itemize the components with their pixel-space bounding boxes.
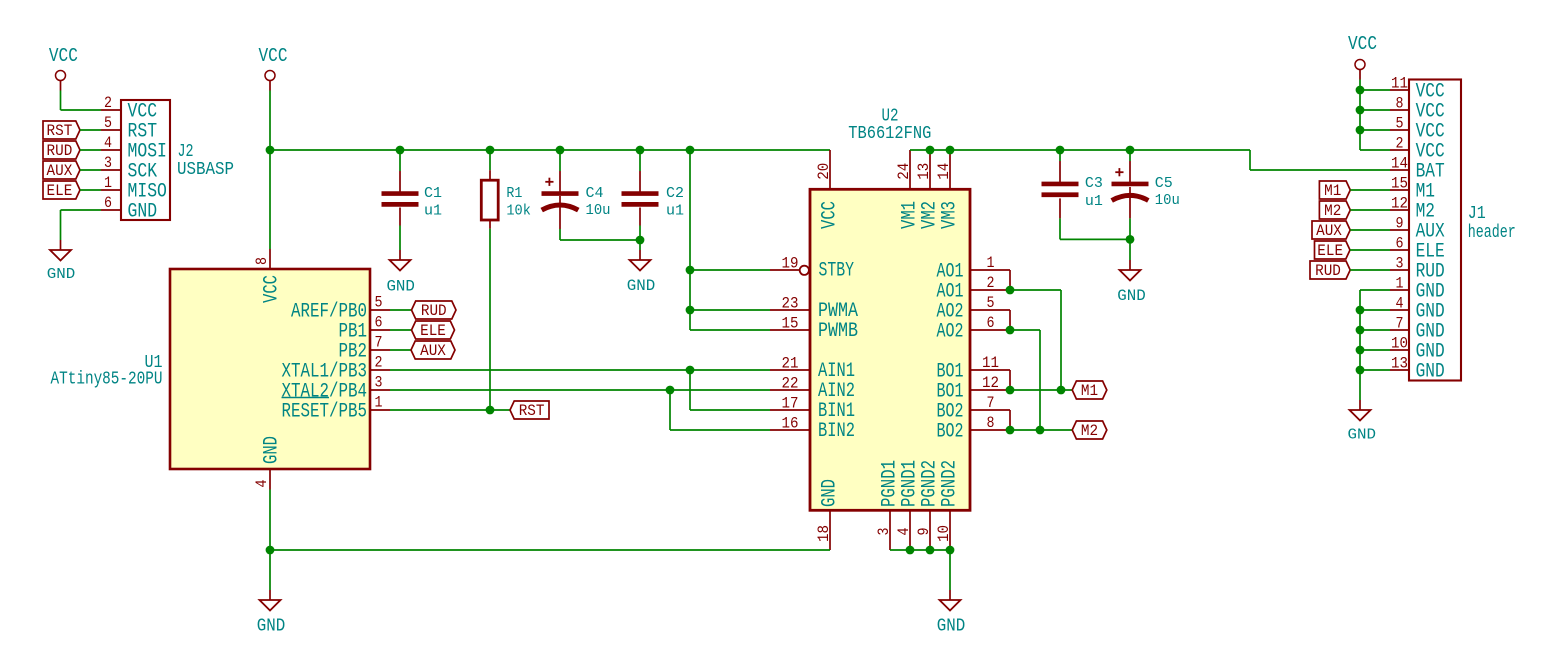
wire VCC1 down (60, 91, 62, 111)
svg-text:ATtiny85-20PU: ATtiny85-20PU (51, 370, 163, 390)
svg-text:ELE: ELE (47, 182, 73, 200)
wire AO1 node down (1060, 290, 1062, 390)
U1 pin 2 XTAL1/PB3 (370, 369, 390, 371)
U1 pin 7 PB2 (370, 349, 390, 351)
svg-text:10: 10 (1391, 335, 1408, 353)
svg-text:5: 5 (987, 294, 995, 312)
svg-text:6: 6 (1396, 235, 1404, 253)
svg-text:VCC: VCC (49, 45, 78, 67)
wire XTAL1 net (390, 369, 770, 371)
svg-text:8: 8 (987, 414, 995, 432)
hierarchical label AUX (43, 161, 80, 179)
svg-text:u1: u1 (666, 203, 684, 220)
capacitor C3 (1042, 182, 1079, 187)
ground symbol (C1) (399, 250, 401, 260)
svg-text:7: 7 (987, 394, 995, 412)
junction rail C2 (636, 146, 645, 155)
wire ELE to J2 pin 1 (80, 189, 101, 191)
svg-text:5: 5 (1396, 115, 1404, 133)
svg-text:7: 7 (1396, 315, 1404, 333)
svg-text:5: 5 (104, 114, 112, 132)
junction VM3 (946, 146, 955, 155)
junction rail C1 (396, 146, 405, 155)
junction J1 VCC 8 (1356, 106, 1365, 115)
svg-text:11: 11 (982, 354, 999, 372)
IC U2 body (810, 189, 970, 510)
junction J1 GND 4 (1356, 306, 1365, 315)
svg-text:VCC: VCC (261, 275, 284, 303)
U1 pin 1 RESET/PB5 (370, 409, 390, 411)
wire J1 VCC to pin2 (1360, 149, 1390, 151)
wire C2 top lead (639, 171, 641, 192)
svg-text:GND: GND (261, 436, 284, 464)
J1 pin 14 BAT (1390, 169, 1409, 171)
hierarchical label M2 (U2) (1072, 421, 1107, 439)
junction AO2/M2 tie (1036, 426, 1045, 435)
wire C2 bottom lead (639, 208, 641, 226)
ground symbol (C5) (1129, 260, 1131, 270)
U1 pin 8 VCC (269, 249, 271, 269)
wire C5 top lead (1129, 161, 1131, 182)
svg-text:13: 13 (1391, 355, 1408, 373)
wire J1 GND pin1 (1360, 289, 1390, 291)
J1 pin 12 M2 (1390, 209, 1409, 211)
wire PGND bus (890, 549, 950, 551)
svg-text:15: 15 (782, 315, 799, 333)
junction AO1 (1006, 286, 1015, 295)
svg-text:ELE: ELE (1317, 242, 1343, 260)
svg-text:RST: RST (47, 122, 73, 140)
wire main VCC rail (270, 149, 830, 151)
wire RST to J2 pin 5 (80, 129, 101, 131)
J1 pin 2 VCC (1390, 149, 1409, 151)
junction PGND 9 (926, 546, 935, 555)
IC U1 body (170, 269, 370, 469)
wire U1 pin7 to AUX (390, 349, 411, 351)
U2 pin 2 AO1 (970, 289, 1010, 291)
svg-text:12: 12 (982, 374, 999, 392)
wire XTAL2 net (390, 389, 770, 391)
wire J1 GND pin7 (1360, 329, 1390, 331)
svg-text:M2: M2 (1324, 202, 1341, 220)
svg-text:AUX: AUX (420, 342, 446, 360)
wire J1 VCC pin5 (1360, 129, 1390, 131)
svg-text:GND: GND (257, 617, 286, 637)
svg-text:15: 15 (1391, 175, 1408, 193)
svg-text:GND: GND (819, 479, 842, 507)
U1 pin 3 XTAL2/PB4 (370, 389, 390, 391)
wire to BIN1 (690, 409, 770, 411)
wire C2 top green (639, 150, 641, 171)
wire J2 pin 6 to GND (61, 209, 102, 211)
wire BO2 to M2 (1010, 429, 1072, 431)
U1 pin 6 PB1 (370, 329, 390, 331)
svg-text:C3: C3 (1085, 175, 1103, 192)
wire AO2 node right (1010, 329, 1040, 331)
wire C5 bottom green (1129, 218, 1131, 239)
svg-text:4: 4 (104, 134, 112, 152)
svg-text:14: 14 (1391, 155, 1408, 173)
wire C4 to C2 node (560, 239, 640, 241)
svg-text:AUX: AUX (1316, 222, 1342, 240)
wire ELE to J1 pin6 (1350, 249, 1390, 251)
connector J2 body (121, 100, 170, 220)
junction J1 VCC 5 (1356, 126, 1365, 135)
svg-text:12: 12 (1391, 195, 1408, 213)
U2 pin 23 PWMA (770, 309, 810, 311)
hierarchical label M1 (U2) (1072, 381, 1107, 399)
wire C3 to C5 node (1060, 238, 1130, 240)
svg-text:C1: C1 (424, 185, 442, 202)
hierarchical label M2 (J1) (1319, 201, 1350, 219)
svg-text:4: 4 (253, 480, 271, 488)
U2 output tie bar 410-430 (1009, 410, 1011, 430)
svg-text:8: 8 (253, 257, 271, 265)
junction AO2 (1006, 326, 1015, 335)
J1 pin 7 GND (1390, 329, 1409, 331)
junction rail C4 (556, 146, 565, 155)
svg-text:GND: GND (1348, 427, 1377, 444)
wire XTAL2 down to BIN2 (669, 390, 671, 430)
svg-text:STBY: STBY (819, 260, 855, 283)
U2 pin 1 AO1 (970, 269, 1010, 271)
J2 pin 6 GND (101, 209, 121, 211)
junction BO1 (1006, 386, 1015, 395)
svg-text:GND: GND (47, 266, 76, 283)
U1 pin 4 GND (269, 469, 271, 490)
wire C1 to GND (399, 226, 401, 251)
wire rail corner down (1249, 150, 1251, 170)
wire RESET net (390, 409, 510, 411)
junction rail C5 (1126, 146, 1135, 155)
wire C1 top lead (399, 171, 401, 192)
svg-text:RST: RST (519, 402, 545, 420)
wire C5 top green (1129, 150, 1131, 161)
J1 pin 10 GND (1390, 349, 1409, 351)
svg-text:M2: M2 (1081, 422, 1098, 440)
wire C2 node to GND (639, 240, 641, 250)
wire J1 VCC down (1359, 80, 1361, 151)
hierarchical label ELE (J1) (1315, 241, 1351, 259)
wire C5 bottom lead (1129, 187, 1131, 218)
resistor R1 body (481, 180, 498, 220)
svg-text:GND: GND (1416, 360, 1445, 383)
J1 pin 13 GND (1390, 369, 1409, 371)
svg-text:24: 24 (895, 163, 913, 180)
svg-text:14: 14 (935, 163, 953, 180)
J2 pin 3 SCK (101, 169, 121, 171)
svg-text:18: 18 (815, 525, 833, 542)
J1 pin 4 GND (1390, 309, 1409, 311)
U2 pin 22 AIN2 (770, 389, 810, 391)
wire C1 top green (399, 150, 401, 171)
J2 pin 2 VCC (101, 109, 121, 111)
wire C3 down (1059, 218, 1061, 239)
junction rail branch (686, 146, 695, 155)
svg-text:5: 5 (375, 294, 383, 312)
U2 pin 19 STBY (770, 269, 800, 271)
junction BO2 (1006, 426, 1015, 435)
svg-text:R1: R1 (506, 185, 522, 202)
wire VCC2 to U1 pin 8 (269, 150, 271, 249)
wire BO1 to M1 (1010, 389, 1072, 391)
wire to PWMB (690, 329, 770, 331)
J2 pin 4 MOSI (101, 149, 121, 151)
J1 pin 6 ELE (1390, 249, 1409, 251)
wire to STBY (690, 269, 770, 271)
svg-text:GND: GND (128, 200, 158, 223)
wire C4 top green (559, 150, 561, 171)
U2 pin 4 PGND1 (909, 510, 911, 550)
U2 pin 18 GND (829, 510, 831, 550)
J1 pin 8 VCC (1390, 109, 1409, 111)
wire C3 bottom lead (1059, 198, 1061, 218)
svg-text:8: 8 (1396, 95, 1404, 113)
ground symbol (C2) (639, 250, 641, 260)
U2 pin 11 BO1 (970, 369, 1010, 371)
junction J1 GND 13 (1356, 366, 1365, 375)
svg-text:3: 3 (104, 154, 112, 172)
junction J1 VCC 11 (1356, 86, 1365, 95)
J2 pin 1 MISO (101, 189, 121, 191)
hierarchical label RST (reset net) (510, 401, 549, 419)
svg-text:BIN2: BIN2 (818, 420, 855, 443)
wire rail to J1 BAT (1250, 169, 1390, 171)
wire C2 bottom green (639, 226, 641, 241)
svg-text:9: 9 (1396, 215, 1404, 233)
svg-text:VCC: VCC (259, 45, 288, 67)
wire VCC2 down (269, 91, 271, 151)
svg-text:RUD: RUD (421, 302, 447, 320)
junction rail C3 (1056, 146, 1065, 155)
hierarchical label AUX (J1) (1312, 221, 1350, 239)
wire branch down (689, 150, 691, 330)
wire AUX to J2 pin 3 (80, 169, 101, 171)
wire M1 to J1 pin15 (1350, 189, 1390, 191)
svg-text:22: 22 (782, 375, 799, 393)
U2 pin 6 AO2 (970, 329, 1010, 331)
J1 pin 5 VCC (1390, 129, 1409, 131)
svg-text:10u: 10u (586, 202, 611, 219)
svg-text:M1: M1 (1081, 382, 1098, 400)
svg-text:3: 3 (375, 374, 383, 392)
svg-text:u1: u1 (1085, 193, 1103, 210)
wire AUX to J1 pin9 (1350, 229, 1390, 231)
J1 pin 1 GND (1390, 289, 1409, 291)
svg-text:BO2: BO2 (937, 420, 964, 443)
ground symbol (J2) (60, 240, 62, 250)
svg-text:2: 2 (987, 274, 995, 292)
wire to PWMA (690, 309, 770, 311)
hierarchical label RUD (J1) (1310, 261, 1350, 279)
svg-text:6: 6 (104, 194, 112, 212)
svg-text:ELE: ELE (420, 322, 446, 340)
svg-text:M1: M1 (1324, 182, 1341, 200)
svg-text:19: 19 (782, 255, 799, 273)
wire U1 pin6 to ELE (390, 329, 412, 331)
J1 pin 9 AUX (1390, 229, 1409, 231)
svg-text:10: 10 (935, 525, 953, 542)
svg-text:1: 1 (987, 254, 995, 272)
hierarchical label RUD (43, 141, 80, 159)
U2 pin 13 VM2 (929, 150, 931, 189)
junction XTAL1/BIN1 (686, 366, 695, 375)
U2 pin 20 VCC (829, 150, 831, 189)
U2 output tie bar 270-290 (1009, 270, 1011, 290)
junction VM2 (926, 146, 935, 155)
wire C3 top green (1059, 150, 1061, 161)
svg-text:7: 7 (375, 334, 383, 352)
wire R1 bottom lead (489, 220, 491, 229)
wire AO1 node right (1010, 289, 1061, 291)
U2 pin 8 BO2 (970, 429, 1010, 431)
svg-text:RESET/PB5: RESET/PB5 (282, 400, 368, 423)
junction C2/C4 gnd node (636, 236, 645, 245)
junction R1/RESET (486, 406, 495, 415)
wire M2 to J1 pin12 (1350, 209, 1390, 211)
J1 pin 3 RUD (1390, 269, 1409, 271)
wire C5 node to GND (1129, 239, 1131, 260)
junction C3/C5 gnd node (1126, 235, 1135, 244)
svg-text:GND: GND (627, 277, 656, 295)
svg-text:1: 1 (1396, 275, 1404, 293)
connector J1 body (1409, 80, 1461, 381)
svg-text:J1: J1 (1468, 204, 1486, 224)
U2 pin 15 PWMB (770, 329, 810, 331)
wire U1 pin4 down (269, 490, 271, 551)
svg-text:23: 23 (782, 295, 799, 313)
svg-text:C2: C2 (666, 185, 684, 202)
U2 pin 5 AO2 (970, 309, 1010, 311)
U1 pin 5 AREF/PB0 (370, 309, 390, 311)
junction AO1/M1 tie (1057, 386, 1066, 395)
svg-text:TB6612FNG: TB6612FNG (848, 124, 931, 144)
J1 pin 11 VCC (1390, 89, 1409, 91)
junction PGND 4 (906, 546, 915, 555)
U2 pin 3 PGND1 (889, 510, 891, 550)
ground symbol (U1) (269, 590, 271, 600)
capacitor C4 polarized (542, 191, 579, 196)
svg-text:VCC: VCC (1348, 33, 1377, 55)
junction J1 GND 7 (1356, 326, 1365, 335)
svg-text:17: 17 (782, 395, 799, 413)
U2 pin 14 VM3 (949, 150, 951, 189)
junction STBY (686, 266, 695, 275)
svg-text:AUX: AUX (47, 162, 73, 180)
wire gnd bus to U2 pin18 (270, 549, 830, 551)
svg-text:10u: 10u (1155, 192, 1180, 209)
wire PGND down (949, 550, 951, 590)
wire RUD to J1 pin3 (1350, 269, 1390, 271)
hierarchical label ELE (U1) (412, 321, 455, 339)
U2 pin 16 BIN2 (770, 429, 810, 431)
svg-text:21: 21 (782, 355, 799, 373)
wire C3 top lead (1059, 161, 1061, 182)
U2 pin 7 BO2 (970, 409, 1010, 411)
capacitor C1 (382, 191, 419, 196)
wire J1 GND pin10 (1360, 349, 1390, 351)
U2 pin 10 PGND2 (949, 510, 951, 550)
wire VCC1 to J2 pin 2 (61, 109, 102, 111)
J2 pin 5 RST (101, 129, 121, 131)
wire RUD to J2 pin 4 (80, 149, 101, 151)
ground symbol (J1) (1359, 400, 1361, 410)
U2 pin 9 PGND2 (929, 510, 931, 550)
U2 pin 12 BO1 (970, 389, 1010, 391)
U1 RESET overbar (282, 397, 330, 399)
svg-text:USBASP: USBASP (177, 160, 234, 180)
svg-text:u1: u1 (424, 203, 442, 220)
U2 pin 24 VM1 (909, 150, 911, 189)
svg-text:RUD: RUD (47, 142, 73, 160)
junction at VCC2 rail (266, 146, 275, 155)
svg-text:4: 4 (895, 528, 913, 536)
wire R1 top green (489, 150, 491, 170)
svg-text:2: 2 (1396, 135, 1404, 153)
J1 pin 15 M1 (1390, 189, 1409, 191)
svg-text:1: 1 (375, 394, 383, 412)
svg-text:VM3: VM3 (939, 201, 962, 229)
wire VM rail (910, 149, 1250, 151)
hierarchical label AUX (U1) (411, 341, 455, 359)
svg-text:6: 6 (375, 314, 383, 332)
svg-text:20: 20 (815, 163, 833, 180)
svg-text:16: 16 (782, 415, 799, 433)
U2 pin 21 AIN1 (770, 369, 810, 371)
junction PGND 10 (946, 546, 955, 555)
wire J1 GND pin13 (1360, 369, 1390, 371)
hierarchical label M1 (J1) (1319, 181, 1350, 199)
hierarchical label RST (43, 121, 80, 139)
wire U1 gnd down (269, 550, 271, 590)
wire U1 pin5 to RUD (390, 309, 412, 311)
svg-text:VCC: VCC (819, 201, 842, 229)
wire to BIN2 (670, 429, 770, 431)
U2 pin 17 BIN1 (770, 409, 810, 411)
svg-text:1: 1 (104, 174, 112, 192)
wire C1 bottom lead (399, 208, 401, 226)
wire J1 VCC pin11 (1360, 89, 1390, 91)
U2 output tie bar 370-390 (1009, 370, 1011, 390)
wire R1 to RST net (489, 229, 491, 410)
wire AO2 node down (1039, 330, 1041, 430)
svg-text:PWMB: PWMB (818, 320, 858, 343)
wire C4 top lead (559, 171, 561, 192)
hierarchical label ELE (43, 181, 80, 199)
wire XTAL1 down to BIN1 (689, 370, 691, 410)
svg-text:C4: C4 (586, 185, 604, 202)
wire J1 VCC pin8 (1360, 109, 1390, 111)
capacitor C5 polarized (1112, 182, 1149, 187)
svg-text:header: header (1468, 223, 1516, 243)
wire C4 bottom lead (559, 196, 561, 229)
svg-text:9: 9 (915, 528, 933, 536)
junction U1 gnd (266, 546, 275, 555)
wire R1 top lead (489, 170, 491, 180)
svg-text:GND: GND (1117, 287, 1146, 305)
U2 output tie bar 310-330 (1009, 310, 1011, 330)
ground symbol (U2) (949, 590, 951, 600)
junction rail R1 (486, 146, 495, 155)
hierarchical label RUD (U1) (412, 301, 457, 319)
junction PWMA (686, 306, 695, 315)
svg-text:4: 4 (1396, 295, 1404, 313)
svg-text:11: 11 (1391, 75, 1408, 93)
svg-text:C5: C5 (1155, 175, 1173, 192)
svg-text:GND: GND (386, 278, 415, 296)
wire J1 GND column (1359, 290, 1361, 400)
svg-text:10k: 10k (506, 203, 531, 220)
